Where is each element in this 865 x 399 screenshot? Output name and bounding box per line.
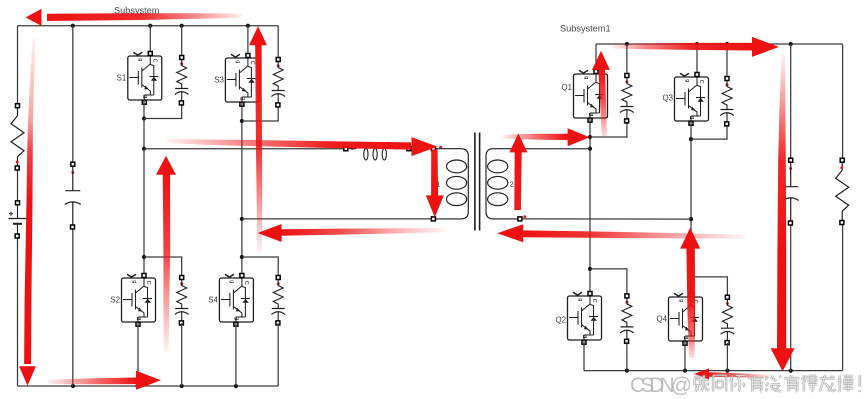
wire: Q1 collector from top rail corner: [595, 44, 597, 72]
watermark hanzi glyph 10: [858, 375, 861, 392]
flow arrow: node B return, pointing left: [258, 224, 282, 242]
flow arrow: output branch, pointing down: [771, 348, 795, 371]
junction bottom rail at S2 snubber: [180, 384, 184, 388]
junction on top rail at S1 snubber tap: [180, 24, 184, 28]
value dot of R2: [840, 166, 843, 169]
svg-text:2: 2: [510, 181, 514, 188]
junction right top rail at output capacitor: [789, 42, 793, 46]
transformer T1 core: [475, 133, 480, 231]
flow arrow: Q1 leg, pointing up: [592, 51, 610, 70]
wire: load resistor branch vertical: [842, 44, 844, 371]
wire: right bridge bottom rail (-) node: [584, 370, 843, 372]
watermark hanzi glyph 9: [838, 375, 854, 391]
junction Q2 snubber tap: [588, 267, 592, 271]
flow arrow: node D return to secondary, pointing left: [497, 224, 523, 242]
junction Q3 emitter / snubber return: [689, 137, 693, 141]
IGBT Q4: [669, 293, 703, 346]
wire: S4 snubber top tap: [242, 257, 278, 278]
junction Q1 emitter / snubber return: [588, 135, 592, 139]
wire: node A to series inductor: [144, 148, 344, 150]
IGBT Q3: [675, 73, 709, 126]
wire: Q4 snubber to bottom rail: [726, 343, 728, 371]
resistor R2 load: [836, 158, 849, 224]
value dot of R1: [16, 161, 19, 164]
wire: node B to transformer primary return terminal: [242, 218, 431, 220]
wire: S4 snubber to bottom rail: [277, 323, 279, 386]
wire: S3 snubber branch connections: [242, 26, 278, 121]
snubber RC network of S1: [175, 56, 189, 105]
snubber RC network of Q4: [721, 295, 735, 344]
wire: S1 snubber branch connections: [144, 26, 182, 119]
flow arrow: left top rail current, pointing left: [26, 9, 42, 26]
node C: transformer secondary top to Q1-Q2 midpoint: [588, 147, 592, 151]
flow arrow: S3 leg current, pointing up: [249, 26, 267, 45]
svg-text:S4: S4: [208, 295, 218, 304]
wire: Q4 snubber top tap: [691, 277, 727, 297]
transformer T1 primary winding: [431, 147, 435, 151]
flow arrow: Q3-Q4 leg, pointing up: [680, 228, 700, 249]
snubber RC network of S3: [271, 58, 285, 107]
wire: input filter capacitor branch vertical: [72, 26, 74, 386]
snubber RC network of S4: [271, 276, 285, 325]
svg-text:Q1: Q1: [561, 83, 572, 92]
IGBT S2: [122, 274, 156, 327]
junction S4 snubber tap: [240, 255, 244, 259]
svg-text:S3: S3: [214, 75, 224, 84]
wire: Q4 emitter to bottom rail: [684, 341, 686, 371]
snubber RC network of S2: [175, 276, 189, 325]
wire: Q2 emitter to bottom rail corner: [583, 340, 585, 371]
junction on top rail at S3 collector tap: [246, 24, 250, 28]
flow arrow: left bottom rail, pointing right: [136, 371, 161, 390]
wire: Q1 emitter chain down to Q2: [589, 118, 591, 296]
svg-text:Q2: Q2: [555, 315, 566, 324]
junction bottom rail at C-filter: [71, 384, 75, 388]
svg-text:S2: S2: [110, 295, 120, 304]
svg-text:S1: S1: [117, 73, 127, 82]
watermark hanzi glyph 6: [784, 375, 800, 392]
flow arrow: secondary top into node C, pointing right: [568, 128, 590, 146]
capacitor C1 input filter: [65, 162, 81, 229]
wire: S4 emitter to bottom rail: [235, 322, 237, 386]
flow arrow: right bottom rail, pointing left: [694, 368, 709, 379]
wire: left source branch vertical: [17, 26, 19, 386]
wire: S1 emitter down to junction: [143, 100, 145, 149]
wire: output capacitor branch vertical: [790, 44, 792, 371]
junction right top rail at Q3 collector: [695, 42, 699, 46]
dc voltage source V1 battery: [9, 201, 27, 238]
wire: Q3 snubber connections: [691, 44, 727, 139]
wire: secondary top terminal to node C: [522, 148, 590, 150]
flow arrow: S1-S2 leg current, pointing up: [156, 156, 176, 175]
wire: left bridge bottom rail (-) node: [18, 385, 279, 387]
svg-text:CSDN @: CSDN @: [630, 374, 692, 397]
flow arrow: transformer secondary, pointing up: [509, 133, 527, 152]
junction S1 emitter / snubber return: [142, 116, 146, 120]
node A: S1-S2 midpoint junction: [142, 147, 146, 151]
svg-text:1: 1: [436, 181, 440, 188]
wire: Q2 snubber to bottom rail: [626, 342, 628, 371]
wire: S2 emitter to bottom rail: [137, 322, 139, 386]
flow arrow: transformer primary, pointing down: [426, 195, 444, 217]
IGBT S4: [219, 274, 253, 327]
wire: Q1 snubber connections: [590, 44, 627, 137]
watermark hanzi glyph 2: [713, 375, 726, 391]
junction S2 snubber tap: [142, 255, 146, 259]
wire: secondary bottom terminal to node D: [522, 218, 691, 220]
junction bottom rail at S4 emitter: [234, 384, 238, 388]
watermark hanzi glyph 1: [694, 375, 710, 392]
junction right bottom rail at Q4 snubber: [725, 369, 729, 373]
flow arrow: node A to transformer, pointing right: [412, 137, 438, 156]
node B: S3-S4 midpoint junction: [240, 217, 244, 221]
wire: S1 collector from top rail: [149, 26, 151, 53]
resistor R1 input source series resistor: [11, 104, 24, 170]
wire: S2 snubber top tap: [144, 257, 182, 278]
watermark hanzi glyph 7: [802, 375, 817, 391]
wire: Q3 collector from top rail: [696, 44, 698, 75]
wire: Q2 snubber top tap: [590, 269, 627, 296]
node D: transformer secondary bottom to Q3-Q4 midpoint: [689, 217, 693, 221]
wire: S3 collector from top rail: [247, 26, 249, 55]
junction right bottom rail at Q4 emitter: [683, 369, 687, 373]
wire: S2 snubber to bottom rail: [181, 323, 183, 386]
flow arrow: left source branch current, pointing down: [19, 366, 36, 386]
svg-text:Q3: Q3: [662, 94, 673, 103]
junction S3 emitter / snubber return: [240, 119, 244, 123]
snubber RC network of Q2: [620, 294, 634, 343]
IGBT Q2: [568, 292, 602, 345]
junction right bottom rail at Q2 snubber: [625, 369, 629, 373]
inductor L1 series link inductor: [344, 147, 348, 151]
transformer T1 secondary winding: [518, 147, 522, 151]
snubber RC network of Q3: [720, 77, 734, 126]
wire: Q3 emitter chain down to Q4: [690, 121, 692, 297]
wire: inductor to transformer primary dotted terminal: [411, 148, 431, 150]
svg-text:Subsystem1: Subsystem1: [560, 24, 611, 34]
junction on top rail at C-filter tap: [71, 24, 75, 28]
junction right top rail at Q3 snubber: [725, 42, 729, 46]
IGBT S1: [128, 52, 162, 105]
junction on top rail at S1 collector tap: [148, 24, 152, 28]
watermark hanzi glyph 3: [731, 375, 745, 391]
junction bottom rail at S2 emitter: [135, 384, 139, 388]
wire: left bridge top rail (+) node: [18, 25, 279, 27]
wire: S3 emitter down through node B: [241, 102, 243, 278]
IGBT Q1: [574, 70, 608, 123]
wire: right bridge top rail (+) node: [596, 43, 843, 45]
junction Q4 snubber tap: [689, 275, 693, 279]
junction right bottom rail at output capacitor: [789, 369, 793, 373]
flow arrow: right top rail, pointing right: [752, 37, 779, 57]
capacitor C2 output filter: [783, 158, 799, 225]
wire: node A down to S2: [143, 149, 145, 278]
snubber RC network of Q1: [620, 74, 634, 123]
watermark hanzi glyph 5: [766, 375, 781, 391]
junction right top rail at Q1 snubber: [625, 42, 629, 46]
svg-text:Q4: Q4: [656, 314, 667, 323]
watermark hanzi glyph 8: [820, 375, 836, 392]
watermark hanzi glyph 4: [748, 375, 764, 392]
IGBT S3: [225, 54, 259, 107]
